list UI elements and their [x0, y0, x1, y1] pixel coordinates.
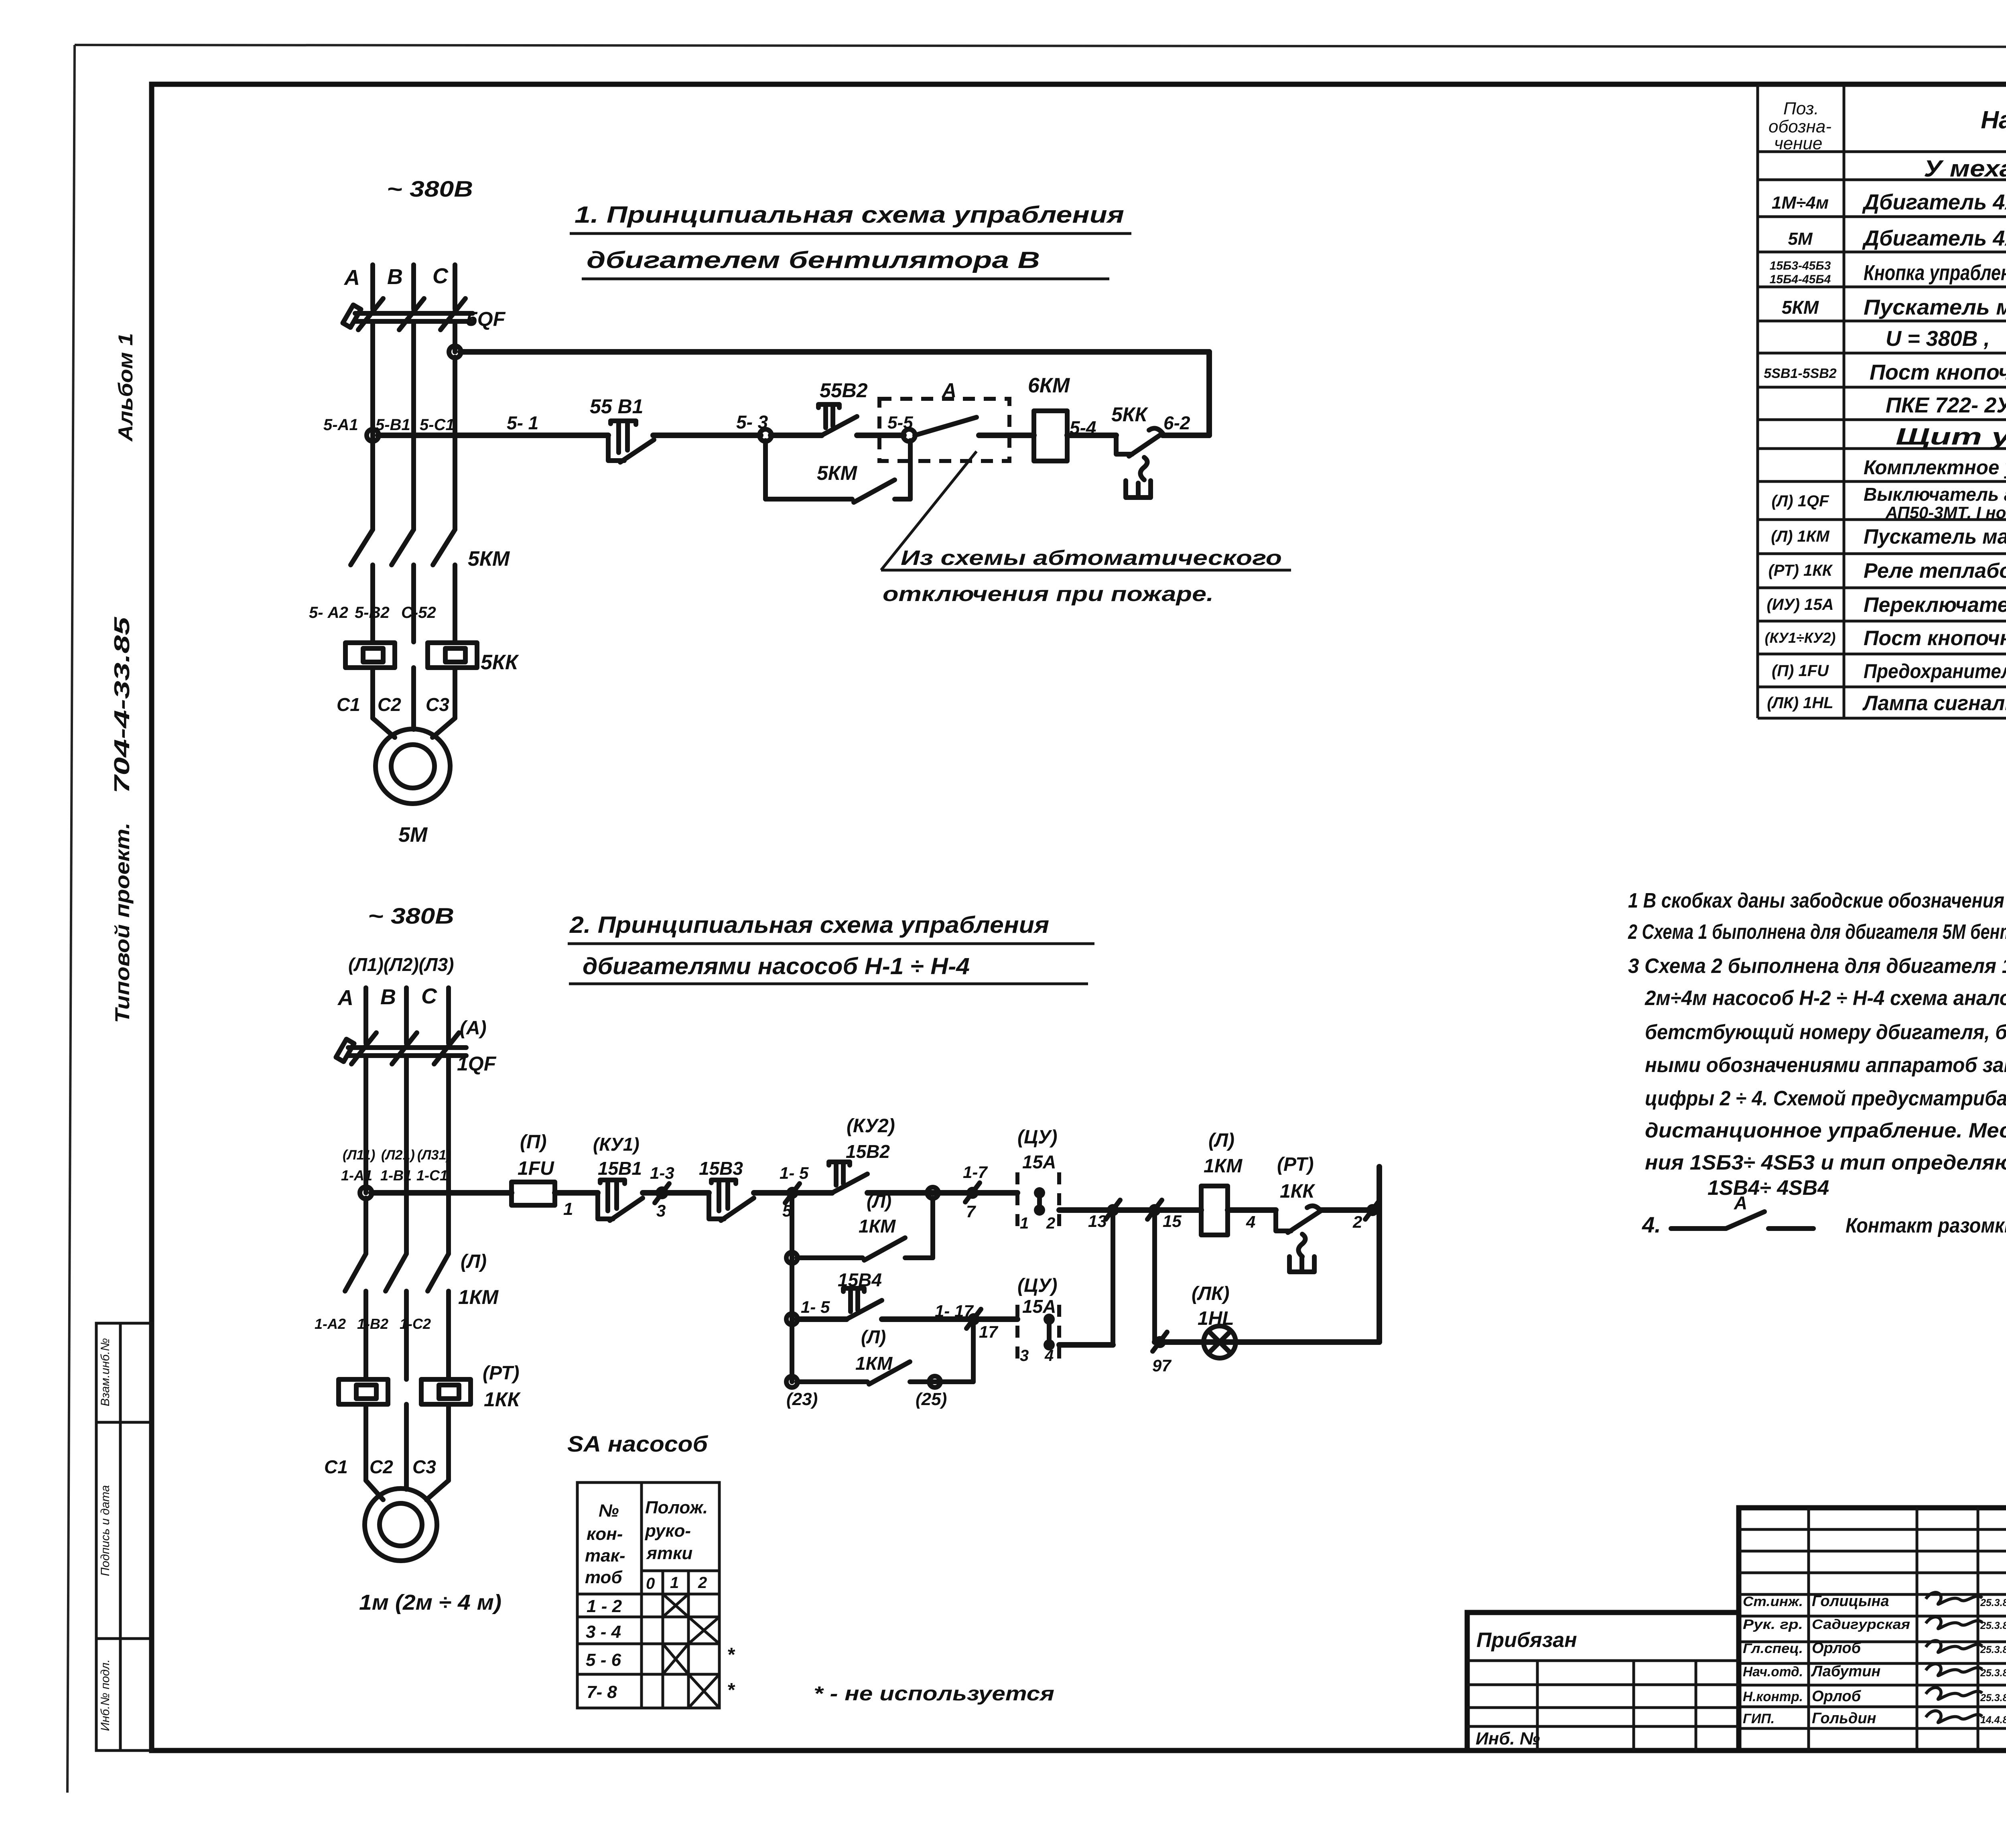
- wire phase A mid (s2): [363, 1058, 368, 1193]
- svg-text:Поз.: Поз.: [1783, 99, 1819, 118]
- svg-text:тоб: тоб: [585, 1568, 623, 1587]
- svg-text:Альбом 1: Альбом 1: [114, 333, 137, 442]
- coil 6KM: [1028, 374, 1070, 461]
- tap 1-17: [935, 1302, 998, 1341]
- thermal contact 1KK (NC): [1276, 1154, 1321, 1272]
- svg-text:1- 17: 1- 17: [935, 1302, 974, 1320]
- svg-text:Наименобание: Наименобание: [1981, 106, 2006, 134]
- svg-text:5М: 5М: [398, 823, 428, 847]
- svg-text:1: 1: [1020, 1214, 1029, 1232]
- svg-text:13: 13: [1088, 1212, 1107, 1231]
- svg-text:Орлоб: Орлоб: [1812, 1688, 1862, 1705]
- svg-text:(Л21): (Л21): [381, 1147, 415, 1163]
- svg-text:1-С2: 1-С2: [400, 1316, 431, 1332]
- tap 97: [1152, 1332, 1172, 1375]
- node 5-3: [759, 429, 772, 441]
- SA table: [577, 1482, 735, 1708]
- svg-text:1- 5: 1- 5: [801, 1298, 830, 1316]
- svg-text:1 В скобках даны забодские: 1 В скобках даны забодские обозначения н…: [1628, 889, 2006, 912]
- svg-text:С-52: С-52: [401, 604, 436, 621]
- svg-text:(ЦУ): (ЦУ): [1017, 1127, 1057, 1148]
- svg-text:5М: 5М: [1788, 229, 1813, 249]
- svg-text:1SВ4÷ 4SВ4: 1SВ4÷ 4SВ4: [1708, 1176, 1829, 1200]
- wire phase B mid: [411, 323, 416, 530]
- svg-text:бетстбующий номеру дбигателя: бетстбующий номеру дбигателя, б маркироб…: [1645, 1021, 2006, 1044]
- svg-text:(РТ) 1КК: (РТ) 1КК: [1768, 562, 1833, 579]
- svg-text:5- А2: 5- А2: [309, 604, 348, 621]
- SCHEMATIC-2 title: [568, 912, 1094, 984]
- svg-text:Инб.№ подл.: Инб.№ подл.: [99, 1659, 112, 1731]
- left margin rotated texts: [110, 333, 137, 1023]
- svg-text:3: 3: [1020, 1347, 1029, 1365]
- svg-text:(Л) 1QF: (Л) 1QF: [1771, 492, 1829, 510]
- svg-text:(Л): (Л): [861, 1326, 886, 1347]
- wire phase A upper: [370, 265, 375, 309]
- tap 2: [1352, 1200, 1380, 1231]
- svg-text:3: 3: [656, 1201, 666, 1220]
- svg-text:отключения при пожаре.: отключения при пожаре.: [883, 583, 1214, 606]
- svg-text:5-В2: 5-В2: [355, 604, 390, 621]
- svg-text:Щит упрабления: Щит упрабления: [1896, 424, 2006, 450]
- branch vertical: [790, 1193, 794, 1382]
- wire to coil: [979, 433, 1034, 438]
- svg-text:С2: С2: [378, 694, 401, 715]
- svg-text:№: №: [599, 1501, 619, 1521]
- svg-text:15В4: 15В4: [838, 1269, 882, 1290]
- svg-text:5КК: 5КК: [481, 651, 519, 674]
- svg-text:7- 8: 7- 8: [587, 1682, 617, 1702]
- wire from node to fuse: [371, 1190, 512, 1196]
- lamp 1HL: [1192, 1283, 1236, 1358]
- svg-text:1-А2: 1-А2: [315, 1316, 346, 1332]
- svg-text:SА насособ: SА насособ: [567, 1431, 708, 1456]
- svg-text:2 Схема 1 быполнена для дбиг: 2 Схема 1 быполнена для дбигателя 5М бен…: [1628, 920, 2006, 944]
- svg-text:(А): (А): [460, 1017, 487, 1039]
- svg-text:1 - 2: 1 - 2: [587, 1596, 622, 1616]
- wire TsU2 out to 13-drop: [1059, 1342, 1113, 1348]
- svg-text:(ЛК): (ЛК): [1192, 1283, 1229, 1304]
- svg-text:Пускатель магнитный ПМЛ-121: Пускатель магнитный ПМЛ-121002А: [1864, 295, 2006, 319]
- pushbutton 15V1 (NC): [593, 1134, 643, 1220]
- svg-text:кон-: кон-: [587, 1524, 623, 1544]
- contactor 1KM main contacts: [345, 1251, 499, 1379]
- svg-text:Инб. №: Инб. №: [1476, 1729, 1540, 1748]
- wire phase A mid: [370, 323, 375, 530]
- svg-text:Реле теплабое ТРН-25. I нэ: Реле теплабое ТРН-25. I нэ = 16А: [1864, 559, 2006, 583]
- svg-text:1КК: 1КК: [1280, 1181, 1316, 1202]
- svg-text:А: А: [941, 379, 956, 402]
- svg-text:У механизма: У механизма: [1924, 156, 2006, 182]
- svg-text:4: 4: [1044, 1347, 1054, 1365]
- svg-text:ПКЕ 722- 2У3: ПКЕ 722- 2У3: [1886, 393, 2006, 417]
- svg-text:6-2: 6-2: [1163, 412, 1190, 433]
- svg-text:В: В: [380, 985, 396, 1009]
- svg-text:Орлоб: Орлоб: [1812, 1640, 1862, 1657]
- svg-text:1-С1: 1-С1: [416, 1167, 448, 1184]
- svg-text:АП50-3МТ. I ном = 50А I к: АП50-3МТ. I ном = 50А I к = 25А: [1885, 503, 2006, 522]
- svg-text:Комплектное устройстбо РУС 5: Комплектное устройстбо РУС 5115-03В2Н: [1864, 456, 2006, 479]
- svg-text:5КМ: 5КМ: [1782, 297, 1819, 318]
- svg-text:15А: 15А: [1022, 1296, 1056, 1317]
- wire phase B upper: [411, 265, 416, 309]
- wire right rail (schema1): [1206, 352, 1212, 435]
- svg-text:~ 380В: ~ 380В: [368, 903, 454, 928]
- contactor 5KM main contacts: [351, 530, 510, 642]
- svg-text:1-А1: 1-А1: [341, 1167, 372, 1184]
- pushbutton 55V1 (NC stop): [590, 395, 654, 462]
- phase labels A B C: [343, 264, 449, 290]
- svg-text:Полож.: Полож.: [645, 1498, 708, 1517]
- svg-text:5-5: 5-5: [887, 413, 913, 433]
- right rail (s2): [1377, 1167, 1382, 1342]
- svg-text:5-С1: 5-С1: [420, 416, 455, 434]
- svg-text:так-: так-: [585, 1546, 625, 1566]
- svg-text:2: 2: [698, 1574, 707, 1592]
- wires to motor terminals C1 C2 C3: [337, 668, 455, 737]
- svg-text:1КМ: 1КМ: [859, 1216, 896, 1237]
- svg-text:Кнопка упрабления: Кнопка упрабления: [1864, 261, 2006, 285]
- tap 1-7: [963, 1163, 988, 1221]
- holding contact branch 5KM: [765, 441, 910, 502]
- svg-text:1: 1: [563, 1199, 573, 1219]
- third branch with 1KM aux (23)-(25): [786, 1319, 973, 1409]
- svg-text:1. Принципиальная схема упра: 1. Принципиальная схема упрабления: [575, 202, 1124, 228]
- holding branch 1KM (row2 parallel): [786, 1191, 933, 1263]
- svg-text:25.3.85: 25.3.85: [1980, 1620, 2006, 1631]
- svg-text:55 В1: 55 В1: [590, 395, 643, 418]
- svg-text:(ЛК) 1НL: (ЛК) 1НL: [1767, 694, 1833, 712]
- wire 5-1: [378, 433, 608, 438]
- PARTS-TABLE grid: [1758, 85, 2006, 718]
- svg-text:2. Принципиальная схема упра: 2. Принципиальная схема упрабления: [569, 912, 1049, 938]
- svg-text:Гл.спец.: Гл.спец.: [1743, 1641, 1803, 1656]
- svg-text:Контакт разомкнут при пож: Контакт разомкнут при пожаре.: [1846, 1214, 2006, 1237]
- svg-text:Лабутин: Лабутин: [1811, 1663, 1880, 1680]
- svg-text:(ИУ) 15А: (ИУ) 15А: [1767, 596, 1834, 613]
- svg-text:17: 17: [979, 1322, 998, 1341]
- svg-text:А: А: [1734, 1192, 1747, 1213]
- wire phase A upper (s2): [363, 988, 368, 1043]
- breaker 5QF: [343, 299, 506, 330]
- dashed box A (fire interlock): [879, 379, 1009, 461]
- callout: fire note: [881, 451, 1291, 606]
- svg-text:1: 1: [670, 1574, 679, 1592]
- PARTS-TABLE header text: [1768, 99, 2006, 153]
- SCHEMATIC-1 title: [570, 202, 1131, 279]
- svg-text:1КК: 1КК: [484, 1388, 521, 1411]
- svg-text:Подпись и дата: Подпись и дата: [99, 1485, 112, 1576]
- motor 1M: [359, 1489, 501, 1614]
- selector switch TsU-2 15A: [1017, 1275, 1059, 1365]
- wire phase C upper: [453, 265, 457, 309]
- svg-text:0: 0: [646, 1575, 655, 1592]
- svg-text:4: 4: [1246, 1212, 1255, 1231]
- svg-text:15Б4-45Б4: 15Б4-45Б4: [1770, 273, 1831, 286]
- svg-text:дбигателями насособ Н-1: дбигателями насособ Н-1 ÷ Н-4: [583, 953, 970, 979]
- breaker 1QF: [336, 1017, 496, 1075]
- svg-text:Пост кнопочный, „Пуск- стоп: Пост кнопочный, „Пуск- стоп“: [1870, 360, 2006, 384]
- svg-text:15Б3-45Б3: 15Б3-45Б3: [1770, 259, 1831, 272]
- svg-text:15А: 15А: [1022, 1151, 1056, 1172]
- svg-text:15В1: 15В1: [598, 1158, 642, 1179]
- second control branch (remote): [786, 1298, 847, 1325]
- svg-text:(Л1)(Л2)(Л3): (Л1)(Л2)(Л3): [348, 954, 454, 975]
- svg-text:(П): (П): [520, 1131, 547, 1153]
- X marks: [663, 1594, 719, 1708]
- svg-text:5КМ: 5КМ: [468, 547, 510, 571]
- svg-text:3 Схема 2 быполнена для дбиг: 3 Схема 2 быполнена для дбигателя 1 М на…: [1628, 954, 2006, 978]
- svg-text:2м÷4м насособ Н-2 ÷ Н-4 схем: 2м÷4м насособ Н-2 ÷ Н-4 схема аналогична…: [1645, 987, 2006, 1010]
- svg-text:25.3.85: 25.3.85: [1980, 1667, 2006, 1679]
- svg-text:5SВ1-5SВ2: 5SВ1-5SВ2: [1764, 366, 1837, 381]
- tap 15 with drop: [1147, 1200, 1182, 1342]
- svg-text:5-В1: 5-В1: [376, 416, 410, 434]
- net labels (L1)(L2)(L3): [348, 954, 454, 975]
- node holding join: [927, 1187, 938, 1198]
- svg-text:С: С: [421, 984, 437, 1008]
- svg-text:(Л31): (Л31): [417, 1147, 451, 1163]
- svg-text:5КК: 5КК: [1111, 403, 1149, 426]
- tap 13 with drop: [1088, 1200, 1120, 1345]
- svg-text:(Л): (Л): [461, 1251, 487, 1272]
- tap 1-5 (branch): [780, 1164, 809, 1220]
- svg-text:15В3: 15В3: [699, 1158, 743, 1179]
- svg-text:~ 380В: ~ 380В: [387, 176, 473, 201]
- TITLE-BLOCK signature rows: [1743, 1593, 2006, 1727]
- svg-text:5- 1: 5- 1: [507, 412, 538, 433]
- svg-text:чение: чение: [1774, 134, 1822, 153]
- wire phase C mid (s2): [446, 1058, 451, 1254]
- svg-text:ными обозначениями аппарато: ными обозначениями аппаратоб заменить со…: [1645, 1054, 2006, 1077]
- wire 5-4: [1067, 433, 1116, 438]
- fuse 1FU: [512, 1131, 555, 1205]
- svg-text:Нач.отд.: Нач.отд.: [1743, 1664, 1803, 1679]
- svg-text:1КМ: 1КМ: [458, 1286, 499, 1308]
- svg-text:ГИП.: ГИП.: [1743, 1711, 1775, 1726]
- svg-text:1-В1: 1-В1: [380, 1167, 412, 1184]
- svg-text:(ЦУ): (ЦУ): [1017, 1275, 1057, 1296]
- svg-text:А: А: [337, 986, 353, 1010]
- svg-text:U = 380В , I нэ = 0,65: U = 380В , I нэ = 0,65: [1886, 327, 2006, 351]
- node 1-A1 control tap: [360, 1187, 372, 1199]
- svg-text:(РТ): (РТ): [1277, 1154, 1314, 1175]
- svg-text:25.3.85: 25.3.85: [1980, 1692, 2006, 1704]
- wire phase B upper (s2): [404, 988, 409, 1043]
- svg-text:руко-: руко-: [645, 1521, 691, 1541]
- wire labels 5-A2 5-B2 C-52: [309, 604, 436, 621]
- svg-text:ятки: ятки: [646, 1543, 692, 1563]
- note-4 contact symbol: [1671, 1192, 1813, 1229]
- wire phase C mid: [453, 323, 457, 352]
- svg-text:С3: С3: [426, 694, 449, 715]
- PRIVYAZAN stamp: [1467, 1612, 1739, 1751]
- wire phase C upper (s2): [446, 988, 451, 1043]
- svg-text:(Л11): (Л11): [343, 1147, 375, 1163]
- svg-text:Гольдин: Гольдин: [1812, 1710, 1876, 1727]
- svg-text:(Л): (Л): [867, 1191, 891, 1212]
- wire 5-3 segment: [653, 433, 761, 438]
- wire TsU1 out: [1059, 1207, 1201, 1213]
- svg-text:*: *: [727, 1679, 735, 1701]
- svg-text:3 - 4: 3 - 4: [586, 1622, 621, 1642]
- svg-text:(РТ): (РТ): [483, 1363, 519, 1384]
- svg-text:5 - 6: 5 - 6: [586, 1650, 621, 1670]
- svg-text:Пост кнопочный ПКЕ 122 - 1: Пост кнопочный ПКЕ 122 - 1У3: [1864, 627, 2006, 650]
- pushbutton 15V2 (NO start): [829, 1115, 895, 1193]
- thermal relay 1KK heaters: [339, 1363, 521, 1411]
- svg-text:55В2: 55В2: [820, 379, 868, 402]
- NOTES text block: [1628, 889, 2006, 1237]
- svg-text:5-4: 5-4: [1070, 417, 1096, 438]
- svg-text:Переключатель ПКП 10- 2- 10: Переключатель ПКП 10- 2- 10 - 1: [1864, 593, 2006, 617]
- svg-text:1м (2м ÷ 4 м): 1м (2м ÷ 4 м): [359, 1590, 501, 1614]
- node 5-5: [903, 429, 915, 441]
- svg-text:Выключатель абтоматический: Выключатель абтоматический: [1864, 484, 2006, 505]
- svg-text:С1: С1: [324, 1456, 348, 1477]
- svg-text:Н.контр.: Н.контр.: [1743, 1689, 1803, 1704]
- TITLE-BLOCK main stamp: [1739, 1508, 2006, 1751]
- svg-text:1QF: 1QF: [457, 1052, 497, 1075]
- wire labels (L11)(L21)(L31): [343, 1147, 451, 1163]
- wire labels 5-A1 5-B1 5-C1: [323, 416, 455, 434]
- svg-text:Предохранитель ПРС 6-П,~440В.: Предохранитель ПРС 6-П,~440В. I пл.бст =…: [1864, 660, 2006, 682]
- wire top rail: [460, 349, 1209, 355]
- svg-text:Ст.инж.: Ст.инж.: [1743, 1594, 1803, 1609]
- selector switch TsU-1 15A: [1017, 1127, 1059, 1233]
- motor 5M: [376, 729, 450, 847]
- svg-text:дистанционное упрабление.: дистанционное упрабление. Место устанобк…: [1645, 1119, 2006, 1142]
- svg-text:* - не используется: * - не используется: [814, 1682, 1054, 1705]
- svg-text:С2: С2: [370, 1456, 393, 1477]
- svg-text:Дбигатель 4А 132 М6,: Дбигатель 4А 132 М6,: [1862, 190, 2006, 214]
- svg-text:Взам.инб.№: Взам.инб.№: [99, 1338, 112, 1406]
- svg-text:В: В: [387, 265, 403, 289]
- svg-text:25.3.85: 25.3.85: [1980, 1644, 2006, 1655]
- coil 1KM: [1201, 1130, 1243, 1235]
- svg-text:(П) 1FU: (П) 1FU: [1772, 662, 1829, 680]
- svg-text:Садигурская: Садигурская: [1812, 1617, 1910, 1632]
- svg-text:Рук. гр.: Рук. гр.: [1743, 1617, 1803, 1632]
- svg-text:1КМ: 1КМ: [855, 1353, 893, 1374]
- svg-text:(25): (25): [916, 1389, 947, 1409]
- svg-text:1- 5: 1- 5: [780, 1164, 809, 1182]
- svg-text:(23): (23): [786, 1389, 818, 1409]
- pushbutton 15V4 (NO): [838, 1269, 882, 1319]
- svg-text:4.: 4.: [1642, 1212, 1661, 1237]
- svg-text:5-А1: 5-А1: [323, 416, 358, 434]
- svg-text:5КМ: 5КМ: [817, 462, 858, 484]
- svg-text:25.3.85: 25.3.85: [1980, 1597, 2006, 1608]
- svg-text:1-3: 1-3: [650, 1164, 674, 1182]
- svg-text:1-7: 1-7: [963, 1163, 988, 1182]
- svg-text:(Л) 1КМ: (Л) 1КМ: [1771, 528, 1830, 545]
- node on C phase (top rail tap): [449, 346, 461, 358]
- svg-text:1М÷4м: 1М÷4м: [1772, 193, 1829, 213]
- TITLE-BLOCK signatures squiggles: [1926, 1592, 1982, 1722]
- thermal contact 5KK (NC): [1111, 403, 1163, 498]
- node 5-A1 control tap: [367, 429, 379, 441]
- svg-text:С3: С3: [412, 1456, 436, 1477]
- side stamp bottom-left: [96, 1323, 152, 1751]
- thermal relay 5KK heaters: [345, 643, 519, 674]
- wire labels 1-A1 1-B1 1-C1: [341, 1167, 448, 1184]
- svg-text:Лампа сигнальнаяЯТЛ,арматураАС: Лампа сигнальнаяЯТЛ,арматураАСГЛ220: [1862, 692, 2006, 715]
- svg-text:7: 7: [966, 1202, 976, 1221]
- svg-text:1FU: 1FU: [518, 1158, 554, 1179]
- svg-text:2: 2: [1352, 1212, 1362, 1231]
- svg-text:Пускатель магнитный ПМЕ-211.: Пускатель магнитный ПМЕ-211. Тн = 25А: [1864, 525, 2006, 548]
- svg-text:Голицына: Голицына: [1812, 1593, 1889, 1610]
- svg-text:цифры 2 ÷ 4. Схемой предусм: цифры 2 ÷ 4. Схемой предусматрибается ме…: [1645, 1087, 2006, 1110]
- svg-text:С: С: [432, 264, 449, 288]
- phase labels A B C (schema 2): [337, 984, 437, 1010]
- PARTS-TABLE rows text: [1764, 156, 2006, 717]
- svg-text:Дбигатель 4АА 56 А4,: Дбигатель 4АА 56 А4,: [1862, 226, 2006, 250]
- fire contact blade: [915, 417, 977, 435]
- svg-text:Прибязан: Прибязан: [1476, 1629, 1577, 1652]
- lamp row wire: [1155, 1339, 1379, 1345]
- svg-text:(Л): (Л): [1208, 1130, 1234, 1151]
- wire labels 1-A2 1-B2 1-C2: [315, 1316, 431, 1332]
- svg-text:(КУ1): (КУ1): [593, 1134, 640, 1155]
- svg-text:14.4.85: 14.4.85: [1980, 1714, 2006, 1726]
- svg-text:дбигателем бентилятора В: дбигателем бентилятора В: [587, 247, 1040, 273]
- svg-text:С1: С1: [337, 694, 360, 715]
- svg-text:2: 2: [1046, 1214, 1055, 1232]
- svg-text:704-4-33.85: 704-4-33.85: [110, 617, 134, 794]
- wire 6-2: [1163, 433, 1209, 438]
- svg-text:1КМ: 1КМ: [1204, 1156, 1243, 1177]
- svg-text:Из схемы абтоматического: Из схемы абтоматического: [901, 546, 1282, 570]
- svg-text:15: 15: [1163, 1212, 1182, 1231]
- svg-text:1-В2: 1-В2: [357, 1316, 388, 1332]
- svg-text:(КУ2): (КУ2): [847, 1115, 895, 1137]
- svg-text:Типовой проект.: Типовой проект.: [111, 822, 134, 1023]
- svg-text:*: *: [727, 1644, 735, 1665]
- svg-text:1НL: 1НL: [1198, 1308, 1234, 1329]
- tap 1-3: [650, 1164, 674, 1220]
- svg-text:ния 1SБ3÷ 4SБ3 и тип опр: ния 1SБ3÷ 4SБ3 и тип определяются при пр…: [1645, 1151, 2006, 1174]
- svg-text:97: 97: [1152, 1356, 1172, 1375]
- wire phase B mid (s2): [404, 1058, 409, 1254]
- svg-text:5QF: 5QF: [466, 308, 506, 330]
- svg-text:6КМ: 6КМ: [1028, 374, 1070, 397]
- svg-text:А: А: [343, 266, 360, 290]
- pushbutton 15V3 (NC): [699, 1158, 754, 1220]
- wire into dashed box: [857, 433, 904, 438]
- svg-text:(КУ1÷КУ2): (КУ1÷КУ2): [1765, 630, 1836, 646]
- wires to motor terminals C1 C2 C3 (s2): [324, 1404, 449, 1500]
- pushbutton 55V2 (NO start): [818, 379, 868, 435]
- svg-text:15В2: 15В2: [846, 1141, 890, 1162]
